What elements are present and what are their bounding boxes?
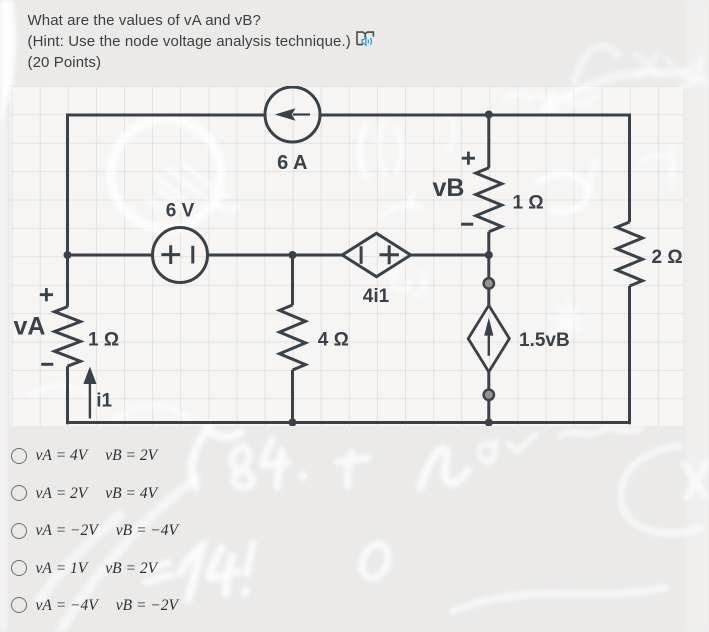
svg-text:i1: i1 (96, 390, 112, 411)
svg-text:vB: vB (433, 174, 465, 202)
svg-text:4i1: 4i1 (363, 286, 390, 307)
svg-text:2 Ω: 2 Ω (652, 247, 683, 268)
svg-text:1 Ω: 1 Ω (88, 330, 119, 351)
svg-text:6 V: 6 V (166, 201, 195, 222)
svg-text:4 Ω: 4 Ω (318, 329, 349, 350)
svg-text:1 Ω: 1 Ω (513, 192, 544, 213)
svg-text:1.5vB: 1.5vB (519, 330, 570, 351)
svg-text:vA: vA (14, 313, 46, 341)
svg-text:6 A: 6 A (277, 152, 307, 174)
